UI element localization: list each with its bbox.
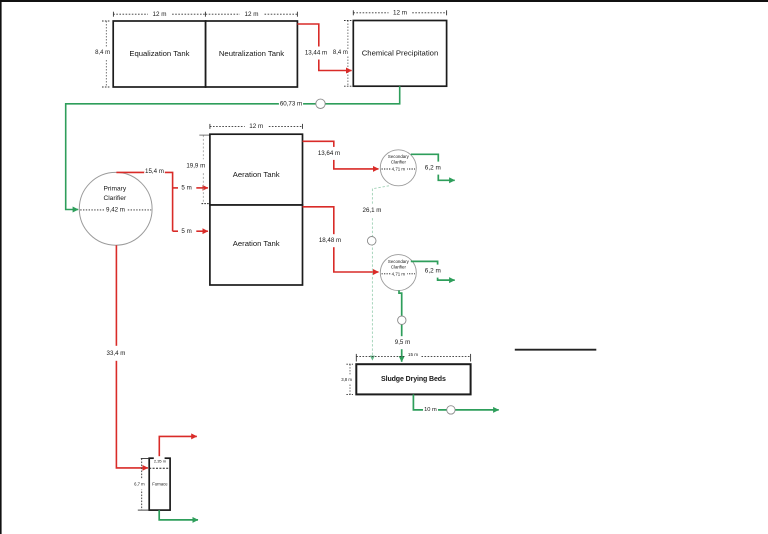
red pipe Aeration Tank 1 to Secondary Clarifier 1, 13,64 m — [303, 141, 379, 169]
svg-text:4,71 m: 4,71 m — [392, 271, 406, 276]
svg-text:6,7 m: 6,7 m — [134, 482, 145, 487]
svg-text:Chemical Precipitation: Chemical Precipitation — [362, 49, 438, 58]
Primary Clarifier — [79, 172, 152, 245]
svg-text:13,64 m: 13,64 m — [318, 150, 340, 157]
Aeration Tank 2 — [210, 205, 303, 285]
dimension 6,7 m left of Furnace — [134, 459, 150, 511]
dimension 12 m over Chemical Precipitation — [353, 8, 446, 17]
Secondary Clarifier 2 — [380, 255, 416, 291]
red pipe Primary Clarifier to aeration feed header, 15,4 m — [116, 165, 172, 231]
dimension 12 m over Equalization Tank — [113, 10, 205, 19]
green pipe Chemical Precipitation to Primary Clarifier, 60,73 m — [66, 86, 400, 209]
green pipe Secondary Clarifier 2 to Sludge Drying Beds, 9,5 m — [395, 290, 411, 361]
svg-text:33,4 m: 33,4 m — [107, 350, 126, 357]
svg-text:60,73 m: 60,73 m — [280, 101, 302, 108]
svg-text:6,2 m: 6,2 m — [425, 165, 441, 172]
svg-text:9,5 m: 9,5 m — [395, 339, 410, 346]
Neutralization Tank — [206, 21, 298, 87]
dimension 12 m over Aeration Tank 1 — [210, 122, 303, 131]
red branch 5 m into Aeration Tank 2 — [173, 228, 208, 235]
red pipe Neutralization to Chemical Precipitation — [297, 24, 351, 71]
svg-text:3,8 m: 3,8 m — [341, 377, 352, 382]
Secondary Clarifier 1 — [380, 150, 416, 186]
dimension 12 m over Neutralization Tank — [206, 10, 298, 19]
svg-text:8,4 m: 8,4 m — [95, 50, 110, 56]
svg-text:18,48 m: 18,48 m — [319, 237, 341, 244]
black scale bar line — [515, 349, 597, 351]
red pipe Primary Clarifier to Furnace, 33,4 m — [105, 245, 148, 468]
green outflow Sludge Drying Beds, 10 m — [413, 394, 498, 416]
junction circle on 60,73 m pipe — [316, 99, 325, 108]
green outflow Secondary Clarifier 1, 6,2 m — [411, 154, 455, 180]
svg-text:Primary: Primary — [103, 186, 126, 193]
red pipe Aeration Tank 2 to Secondary Clarifier 2, 18,48 m — [303, 207, 379, 272]
dimension 19,9 m beside Aeration Tank 1 — [186, 135, 210, 204]
svg-text:Sludge Drying Beds: Sludge Drying Beds — [381, 376, 446, 383]
dimension 15 m over Sludge Drying Beds — [356, 351, 470, 362]
svg-text:4,71 m: 4,71 m — [392, 167, 406, 172]
svg-text:Clarifier: Clarifier — [391, 160, 407, 165]
junction circle on 9,5 m pipe — [398, 316, 406, 324]
svg-text:Furnace: Furnace — [152, 482, 168, 487]
svg-text:12 m: 12 m — [153, 11, 167, 18]
svg-text:19,9 m: 19,9 m — [186, 162, 205, 169]
svg-text:12 m: 12 m — [245, 11, 259, 18]
svg-text:8,4 m: 8,4 m — [333, 50, 348, 56]
svg-text:12 m: 12 m — [249, 123, 263, 130]
svg-text:5 m: 5 m — [181, 185, 191, 192]
dimension 8,4 m left of Chemical Precipitation — [333, 21, 352, 87]
svg-text:Equalization Tank: Equalization Tank — [129, 49, 189, 58]
page top border — [0, 0, 768, 2]
svg-text:Aeration Tank: Aeration Tank — [233, 239, 280, 248]
red exhaust pipe from Furnace top — [159, 436, 197, 458]
svg-text:Clarifier: Clarifier — [391, 264, 407, 269]
svg-text:13,44 m: 13,44 m — [305, 50, 327, 57]
dimension 8,4 m left of Equalization Tank — [95, 21, 110, 87]
junction circle on 10 m pipe — [447, 406, 455, 414]
Equalization Tank — [113, 21, 205, 87]
svg-text:10 m: 10 m — [424, 407, 437, 413]
svg-text:Secondary: Secondary — [388, 154, 410, 159]
red branch 5 m into Aeration Tank 1 — [173, 185, 208, 192]
page left border — [0, 0, 2, 534]
svg-text:12 m: 12 m — [393, 10, 407, 17]
Chemical Precipitation tank — [353, 21, 446, 87]
svg-text:2,35 m: 2,35 m — [154, 459, 167, 464]
svg-text:Clarifier: Clarifier — [103, 195, 127, 202]
svg-text:Neutralization Tank: Neutralization Tank — [219, 49, 284, 58]
svg-text:9,42 m: 9,42 m — [106, 207, 125, 214]
svg-text:5 m: 5 m — [181, 228, 191, 235]
svg-text:Secondary: Secondary — [388, 259, 410, 264]
dimension 3,8 m left of Sludge Drying Beds — [341, 364, 353, 394]
green outflow Secondary Clarifier 2, 6,2 m — [411, 261, 455, 280]
svg-text:26,1 m: 26,1 m — [363, 207, 382, 214]
Furnace — [149, 456, 170, 510]
light green dashed sludge return line 26,1 m — [361, 186, 389, 360]
junction circle on 26,1 m line — [367, 237, 376, 246]
svg-text:6,2 m: 6,2 m — [425, 268, 441, 275]
svg-text:Aeration Tank: Aeration Tank — [233, 170, 280, 179]
svg-text:15,4 m: 15,4 m — [145, 168, 164, 175]
green outflow from Furnace bottom — [159, 510, 198, 520]
Aeration Tank 1 — [210, 134, 303, 205]
svg-text:15 m: 15 m — [408, 352, 418, 357]
Sludge Drying Beds — [356, 364, 470, 394]
